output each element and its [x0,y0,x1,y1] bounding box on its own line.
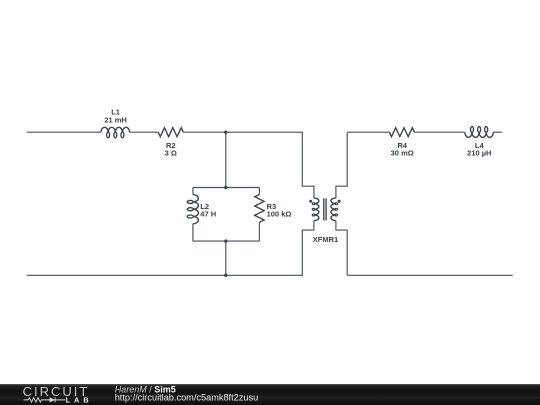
inductor L2 [193,195,198,224]
wire top-left rail [27,131,101,133]
svg-text:30 mΩ: 30 mΩ [391,149,414,158]
wire R3 bottom lead [258,222,260,241]
wire transformer secondary bottom lead [336,221,347,276]
node tank bottom junction [224,239,227,242]
svg-text:47 H: 47 H [200,210,216,219]
resistor R3 [255,194,264,222]
svg-text:LAB: LAB [66,395,93,404]
transformer secondary winding [331,198,336,221]
wire L4 right stub [493,131,502,133]
wire bottom-right rail [347,274,513,276]
wire tank top bus [193,187,260,189]
transformer primary phase dot [309,200,312,203]
wire secondary top rail to R4 [347,131,389,133]
wire tank bottom to ground rail [225,241,227,275]
wire R4 to L4 [414,131,465,133]
svg-text:http://circuitlab.com/c5amk8ft: http://circuitlab.com/c5amk8ft2zusu [115,393,259,403]
wire transformer primary bottom lead [302,221,314,276]
wire L1 to R2 [130,131,159,133]
svg-text:3 Ω: 3 Ω [165,149,177,158]
svg-text:21 mH: 21 mH [104,116,127,125]
CircuitLab logo squiggle resistor-diode [24,398,51,402]
wire R2 to transformer [183,131,303,133]
svg-text:100 kΩ: 100 kΩ [267,210,292,219]
resistor R4 [389,128,414,137]
transformer core [323,198,325,220]
svg-text:210 µH: 210 µH [467,149,491,158]
node junction top [224,131,227,134]
wire R3 top lead [258,188,260,195]
wire transformer secondary top lead [336,132,347,198]
wire junction down to tank top [225,132,227,187]
node bottom rail junction [224,274,227,277]
transformer XFMR1 primary winding [314,198,319,221]
footer bar [0,384,540,405]
wire L2 top lead [192,188,194,195]
node tank top junction [224,186,227,189]
wire bottom-left rail [27,274,303,276]
transformer secondary phase dot [338,200,341,203]
wire transformer primary top lead [302,132,314,198]
wire tank bottom bus [193,240,260,242]
inductor L1 [101,127,130,132]
resistor R2 [158,128,183,137]
inductor L4 [465,132,493,137]
wire L2 bottom lead [192,224,194,241]
svg-text:XFMR1: XFMR1 [313,235,338,244]
